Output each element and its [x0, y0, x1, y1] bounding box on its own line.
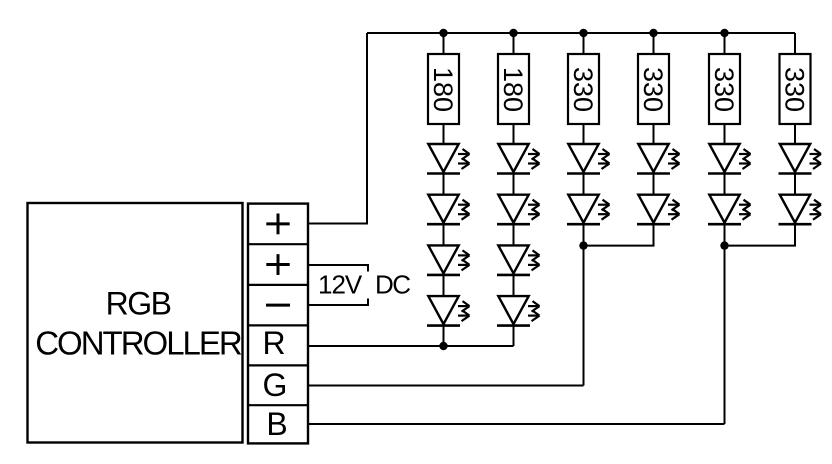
- LED D16: [779, 195, 822, 225]
- wire column 4 to column 3 junction: [584, 224, 654, 245]
- wire LED link: [443, 275, 445, 296]
- LED D6: [497, 195, 540, 225]
- wire column 6 to column 5 junction: [725, 224, 796, 245]
- wire LED link: [724, 174, 726, 195]
- LED D13: [708, 144, 751, 174]
- LED D4: [427, 296, 470, 326]
- wire LED link: [513, 174, 515, 195]
- junction node on bus at column 2: [509, 29, 517, 37]
- svg-text:R: R: [262, 325, 285, 361]
- G net wire: [308, 385, 584, 387]
- terminal +V1 (plus, top): [266, 214, 289, 235]
- LED D7: [497, 245, 540, 275]
- RGB controller U1: [28, 203, 243, 443]
- LED D3: [427, 245, 470, 275]
- junction node on bus at column 5: [720, 29, 728, 37]
- LED D12: [637, 195, 680, 225]
- resistor R5 330 ohm: [709, 33, 740, 144]
- top supply bus wire: [367, 32, 795, 34]
- LED D11: [637, 144, 680, 174]
- svg-text:180: 180: [428, 67, 458, 112]
- LED D9: [567, 144, 610, 174]
- svg-text:DC: DC: [375, 270, 410, 300]
- resistor R1 180 ohm: [428, 33, 459, 144]
- wire - to 12V bracket: [308, 299, 368, 306]
- junction node B branch: [720, 241, 728, 249]
- label 12V DC: [318, 270, 410, 300]
- svg-text:B: B: [266, 406, 287, 442]
- svg-text:330: 330: [709, 67, 739, 112]
- LED D10: [567, 195, 610, 225]
- terminal - (minus, power in): [266, 304, 290, 307]
- wire column 3 down to G net: [583, 224, 585, 385]
- svg-text:330: 330: [568, 67, 598, 112]
- wire column 5 down to B net: [724, 224, 726, 424]
- LED D8: [497, 296, 540, 326]
- wire LED link: [794, 174, 796, 195]
- junction node on bus at column 1: [439, 29, 447, 37]
- wire LED link: [653, 174, 655, 195]
- resistor R2 180 ohm: [498, 33, 529, 144]
- terminal block: [248, 204, 308, 444]
- wire LED link: [513, 224, 515, 245]
- svg-text:330: 330: [638, 67, 668, 112]
- svg-text:CONTROLLER: CONTROLLER: [35, 325, 242, 362]
- resistor R4 330 ohm: [638, 33, 669, 144]
- LED D5: [497, 144, 540, 174]
- terminal +V2 (plus, power in): [266, 254, 289, 275]
- LED D15: [779, 144, 822, 174]
- R net wire: [308, 345, 514, 347]
- LED D14: [708, 195, 751, 225]
- B net wire: [308, 423, 725, 425]
- svg-text:180: 180: [498, 67, 528, 112]
- svg-text:12V: 12V: [318, 270, 363, 300]
- LED D1: [427, 144, 470, 174]
- junction node on bus at column 4: [649, 29, 657, 37]
- resistor R6 330 ohm: [780, 33, 811, 144]
- LED D2: [427, 195, 470, 225]
- svg-text:RGB: RGB: [106, 286, 171, 322]
- wire LED link: [513, 275, 515, 296]
- wire + terminal to top bus: [308, 33, 367, 224]
- junction node on bus at column 3: [579, 29, 587, 37]
- wire LED link: [443, 224, 445, 245]
- svg-text:330: 330: [780, 67, 810, 112]
- resistor R3 330 ohm: [568, 33, 599, 144]
- svg-text:G: G: [263, 367, 288, 403]
- wire column 2 down to R net: [513, 326, 515, 346]
- junction node R net: [439, 342, 447, 350]
- wire column 1 to R net: [443, 326, 445, 346]
- wire LED link: [583, 174, 585, 195]
- wire LED link: [443, 174, 445, 195]
- wire +V2 to 12V bracket: [308, 265, 368, 272]
- junction node G branch: [579, 241, 587, 249]
